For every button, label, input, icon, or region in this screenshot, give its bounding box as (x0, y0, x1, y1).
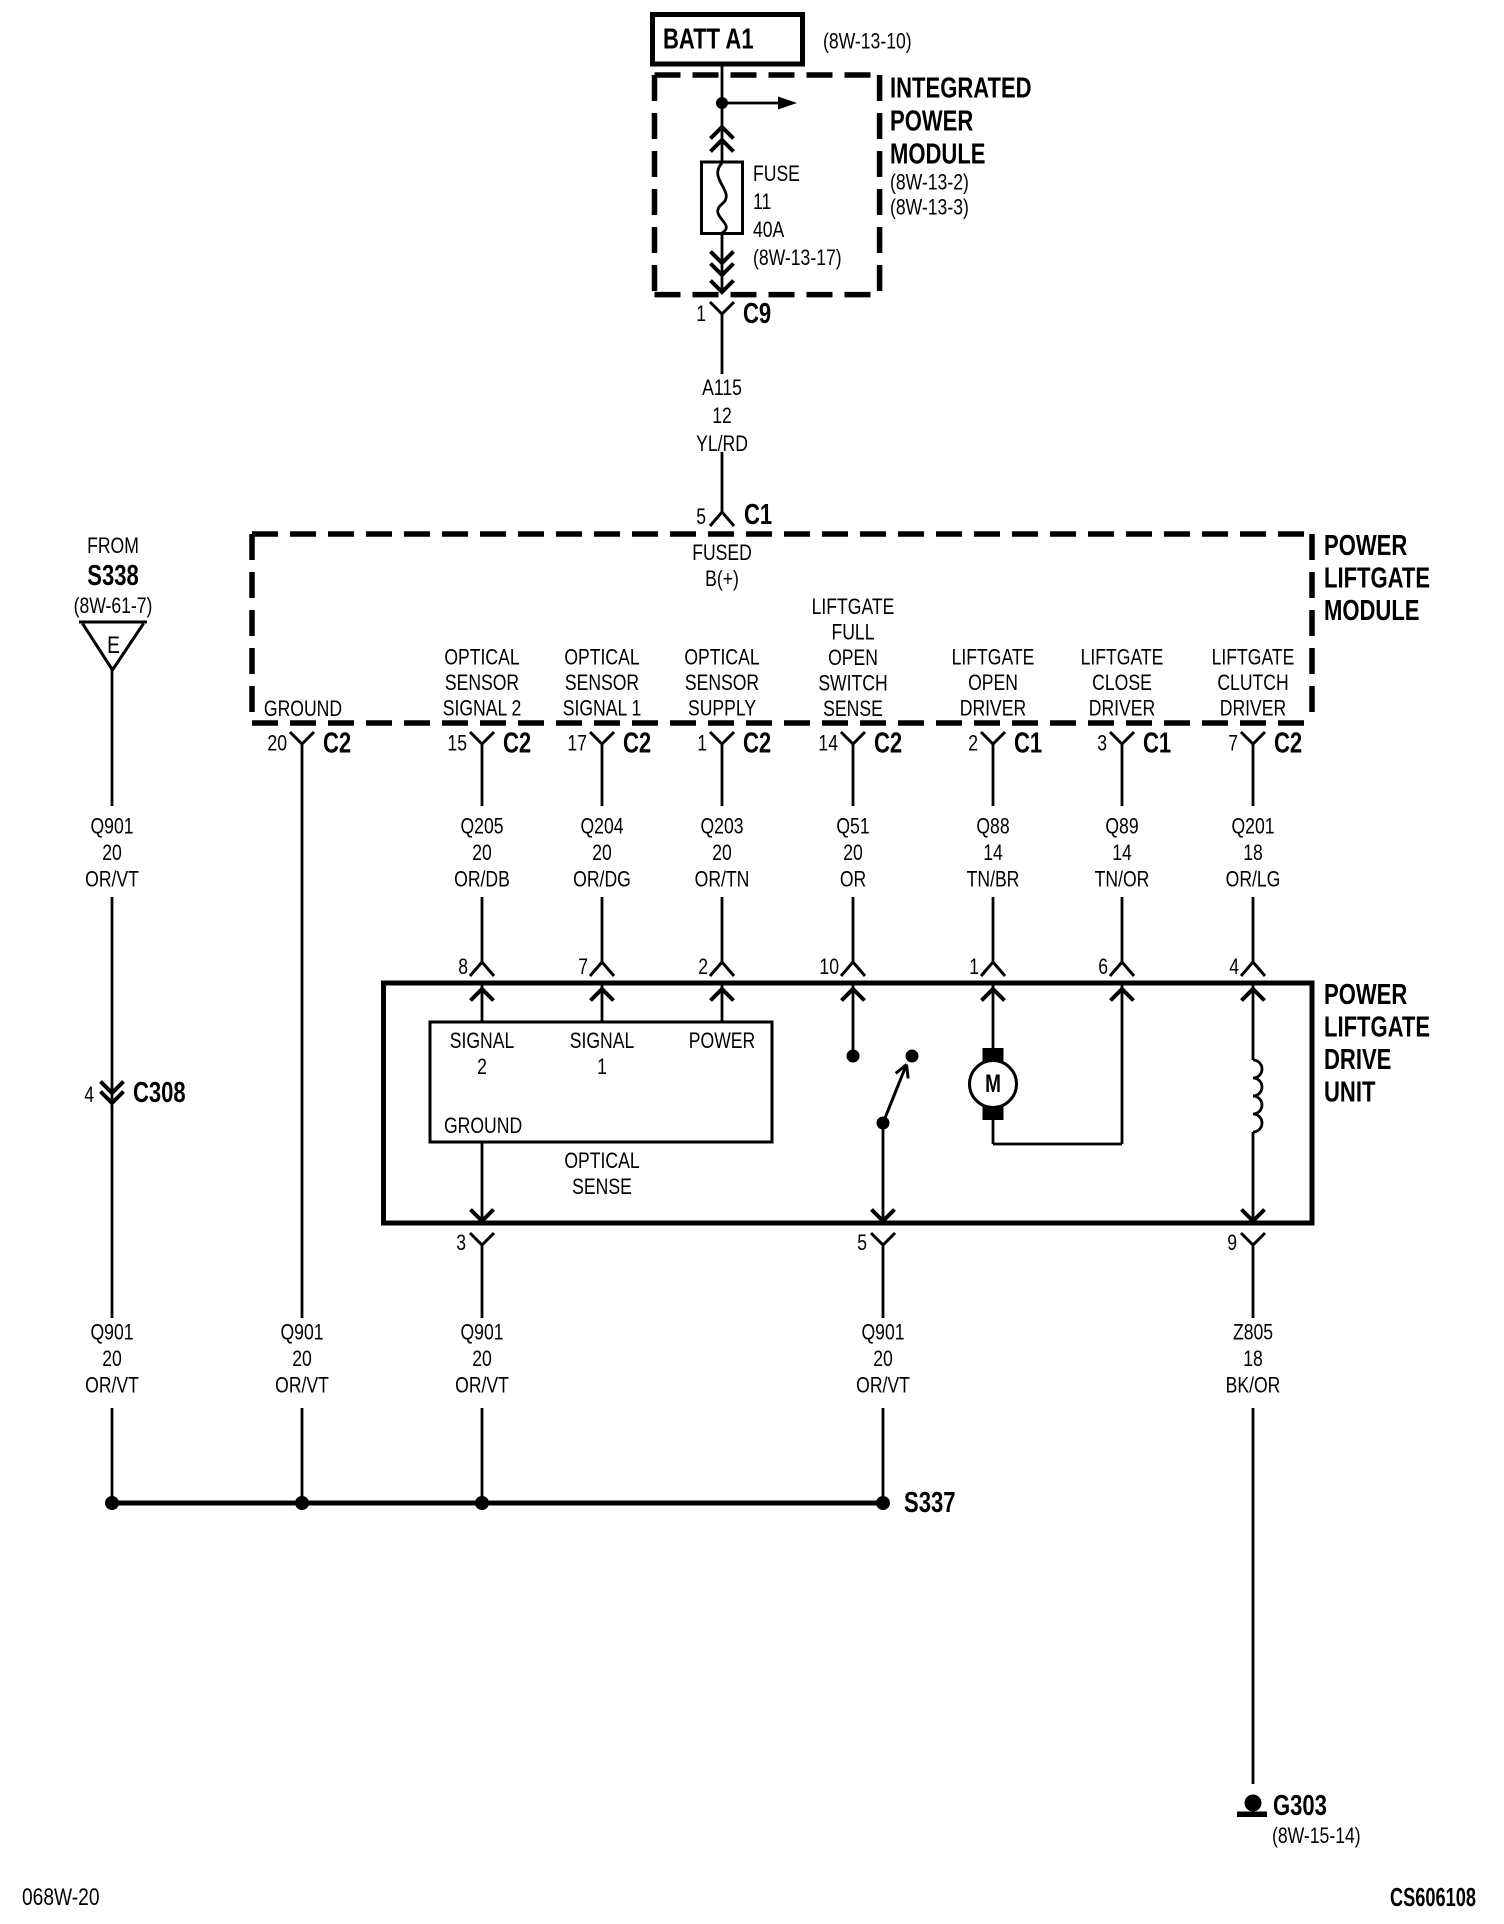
svg-text:GROUND: GROUND (264, 697, 342, 721)
svg-text:OR/VT: OR/VT (85, 1374, 139, 1398)
svg-text:INTEGRATED: INTEGRATED (890, 73, 1032, 105)
svg-text:TN/OR: TN/OR (1095, 868, 1150, 892)
svg-text:SIGNAL: SIGNAL (450, 1029, 515, 1053)
svg-text:OR/TN: OR/TN (695, 868, 750, 892)
svg-text:TN/BR: TN/BR (967, 868, 1020, 892)
svg-text:Q203: Q203 (700, 815, 743, 839)
svg-text:Q204: Q204 (580, 815, 623, 839)
svg-text:C2: C2 (1274, 728, 1302, 760)
svg-text:SWITCH: SWITCH (818, 672, 887, 696)
svg-text:OR/VT: OR/VT (275, 1374, 329, 1398)
svg-text:SIGNAL 1: SIGNAL 1 (563, 697, 642, 721)
svg-text:15: 15 (447, 732, 467, 756)
svg-text:17: 17 (567, 732, 587, 756)
svg-text:Q901: Q901 (460, 1321, 503, 1345)
svg-text:M: M (985, 1069, 1001, 1097)
svg-text:OPTICAL: OPTICAL (444, 646, 519, 670)
svg-text:CLUTCH: CLUTCH (1217, 671, 1288, 695)
svg-text:14: 14 (983, 841, 1003, 865)
svg-text:C2: C2 (743, 728, 771, 760)
svg-text:SIGNAL 2: SIGNAL 2 (443, 697, 522, 721)
svg-text:OR: OR (840, 868, 866, 892)
svg-text:Z805: Z805 (1233, 1321, 1273, 1345)
svg-text:2: 2 (477, 1055, 487, 1079)
svg-text:4: 4 (84, 1083, 94, 1107)
svg-text:20: 20 (472, 841, 492, 865)
svg-text:POWER: POWER (1324, 979, 1408, 1011)
svg-text:C308: C308 (133, 1077, 186, 1109)
svg-text:6: 6 (1098, 955, 1108, 979)
svg-text:7: 7 (578, 955, 588, 979)
svg-text:LIFTGATE: LIFTGATE (1324, 1012, 1430, 1044)
svg-text:20: 20 (102, 1347, 122, 1371)
svg-text:LIFTGATE: LIFTGATE (812, 595, 895, 619)
svg-text:FULL: FULL (831, 621, 874, 645)
svg-text:14: 14 (818, 732, 838, 756)
svg-text:(8W-13-3): (8W-13-3) (890, 196, 969, 220)
svg-text:OPEN: OPEN (828, 646, 878, 670)
svg-text:FROM: FROM (87, 534, 139, 558)
svg-text:18: 18 (1243, 1347, 1263, 1371)
svg-text:9: 9 (1227, 1231, 1237, 1255)
svg-text:5: 5 (857, 1231, 867, 1255)
svg-text:Q201: Q201 (1231, 815, 1274, 839)
svg-text:SUPPLY: SUPPLY (688, 697, 756, 721)
svg-text:GROUND: GROUND (444, 1114, 522, 1138)
svg-text:20: 20 (843, 841, 863, 865)
svg-text:10: 10 (819, 955, 839, 979)
svg-text:OR/VT: OR/VT (856, 1374, 910, 1398)
svg-text:1: 1 (696, 302, 706, 326)
svg-text:E: E (107, 631, 120, 659)
svg-text:1: 1 (597, 1055, 607, 1079)
svg-text:12: 12 (712, 404, 732, 428)
svg-text:5: 5 (696, 505, 706, 529)
svg-text:4: 4 (1229, 955, 1239, 979)
svg-text:POWER: POWER (689, 1029, 755, 1053)
svg-text:1: 1 (969, 955, 979, 979)
svg-text:20: 20 (102, 841, 122, 865)
svg-text:C2: C2 (323, 728, 351, 760)
svg-text:DRIVER: DRIVER (1089, 697, 1155, 721)
svg-text:1: 1 (697, 732, 707, 756)
svg-text:Q901: Q901 (861, 1321, 904, 1345)
svg-text:SENSE: SENSE (572, 1175, 632, 1199)
svg-text:SENSOR: SENSOR (565, 671, 639, 695)
svg-text:OPTICAL: OPTICAL (564, 1149, 639, 1173)
svg-text:20: 20 (592, 841, 612, 865)
svg-text:2: 2 (968, 732, 978, 756)
svg-text:Q901: Q901 (90, 815, 133, 839)
svg-text:2: 2 (698, 955, 708, 979)
svg-text:OPTICAL: OPTICAL (684, 646, 759, 670)
svg-text:OR/LG: OR/LG (1226, 868, 1281, 892)
svg-text:C9: C9 (743, 298, 771, 330)
svg-text:S337: S337 (904, 1487, 955, 1519)
svg-text:20: 20 (873, 1347, 893, 1371)
svg-text:C1: C1 (744, 499, 772, 531)
svg-text:OR/DG: OR/DG (573, 868, 631, 892)
svg-text:LIFTGATE: LIFTGATE (1324, 563, 1430, 595)
svg-text:20: 20 (472, 1347, 492, 1371)
svg-text:MODULE: MODULE (890, 139, 985, 171)
svg-text:11: 11 (753, 190, 771, 214)
svg-text:40A: 40A (753, 218, 785, 242)
svg-text:A115: A115 (702, 376, 742, 400)
svg-text:Q901: Q901 (280, 1321, 323, 1345)
svg-text:7: 7 (1228, 732, 1238, 756)
svg-text:POWER: POWER (890, 106, 974, 138)
svg-text:20: 20 (292, 1347, 312, 1371)
svg-text:OR/DB: OR/DB (454, 868, 510, 892)
svg-text:14: 14 (1112, 841, 1132, 865)
svg-text:20: 20 (712, 841, 732, 865)
svg-text:C1: C1 (1143, 728, 1171, 760)
svg-text:UNIT: UNIT (1324, 1077, 1376, 1109)
svg-text:CLOSE: CLOSE (1092, 671, 1152, 695)
svg-text:C1: C1 (1014, 728, 1042, 760)
svg-text:B(+): B(+) (705, 567, 739, 591)
svg-text:Q89: Q89 (1105, 815, 1138, 839)
svg-text:C2: C2 (874, 728, 902, 760)
svg-text:SENSOR: SENSOR (445, 671, 519, 695)
svg-text:3: 3 (1097, 732, 1107, 756)
svg-text:C2: C2 (623, 728, 651, 760)
svg-text:LIFTGATE: LIFTGATE (1081, 646, 1164, 670)
svg-text:OR/VT: OR/VT (455, 1374, 509, 1398)
svg-text:3: 3 (456, 1231, 466, 1255)
svg-text:FUSED: FUSED (692, 541, 752, 565)
svg-text:(8W-13-2): (8W-13-2) (890, 171, 969, 195)
svg-text:DRIVE: DRIVE (1324, 1044, 1391, 1076)
svg-text:MODULE: MODULE (1324, 595, 1419, 627)
svg-text:20: 20 (267, 732, 287, 756)
svg-text:8: 8 (458, 955, 468, 979)
svg-text:S338: S338 (87, 560, 138, 592)
svg-text:LIFTGATE: LIFTGATE (1212, 646, 1295, 670)
svg-text:Q901: Q901 (90, 1321, 133, 1345)
svg-text:SENSE: SENSE (823, 697, 883, 721)
svg-text:BK/OR: BK/OR (1226, 1374, 1281, 1398)
svg-text:18: 18 (1243, 841, 1263, 865)
svg-text:CS606108: CS606108 (1390, 1883, 1476, 1912)
svg-text:OPTICAL: OPTICAL (564, 646, 639, 670)
svg-text:SENSOR: SENSOR (685, 671, 759, 695)
svg-text:DRIVER: DRIVER (960, 697, 1026, 721)
svg-text:(8W-13-10): (8W-13-10) (823, 30, 912, 54)
svg-text:SIGNAL: SIGNAL (570, 1029, 635, 1053)
svg-text:Q51: Q51 (836, 815, 869, 839)
svg-text:DRIVER: DRIVER (1220, 697, 1286, 721)
svg-text:FUSE: FUSE (753, 162, 800, 186)
svg-text:OR/VT: OR/VT (85, 868, 139, 892)
svg-text:G303: G303 (1273, 1790, 1327, 1822)
svg-text:(8W-13-17): (8W-13-17) (753, 246, 842, 270)
svg-text:POWER: POWER (1324, 530, 1408, 562)
svg-text:(8W-61-7): (8W-61-7) (74, 594, 153, 618)
svg-text:BATT A1: BATT A1 (663, 24, 754, 56)
svg-text:OPEN: OPEN (968, 671, 1018, 695)
svg-text:Q205: Q205 (460, 815, 503, 839)
svg-text:LIFTGATE: LIFTGATE (952, 646, 1035, 670)
svg-text:C2: C2 (503, 728, 531, 760)
svg-text:(8W-15-14): (8W-15-14) (1272, 1824, 1361, 1848)
svg-text:Q88: Q88 (976, 815, 1009, 839)
svg-text:068W-20: 068W-20 (22, 1883, 100, 1911)
